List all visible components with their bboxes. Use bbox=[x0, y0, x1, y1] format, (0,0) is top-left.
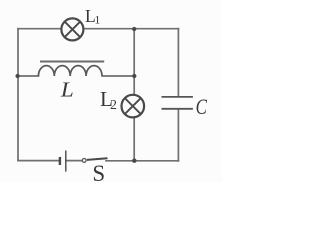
svg-text:1: 1 bbox=[94, 13, 100, 27]
svg-text:C: C bbox=[196, 95, 208, 120]
svg-text:2: 2 bbox=[110, 98, 117, 113]
svg-text:S: S bbox=[92, 161, 105, 182]
svg-text:L: L bbox=[60, 78, 74, 102]
